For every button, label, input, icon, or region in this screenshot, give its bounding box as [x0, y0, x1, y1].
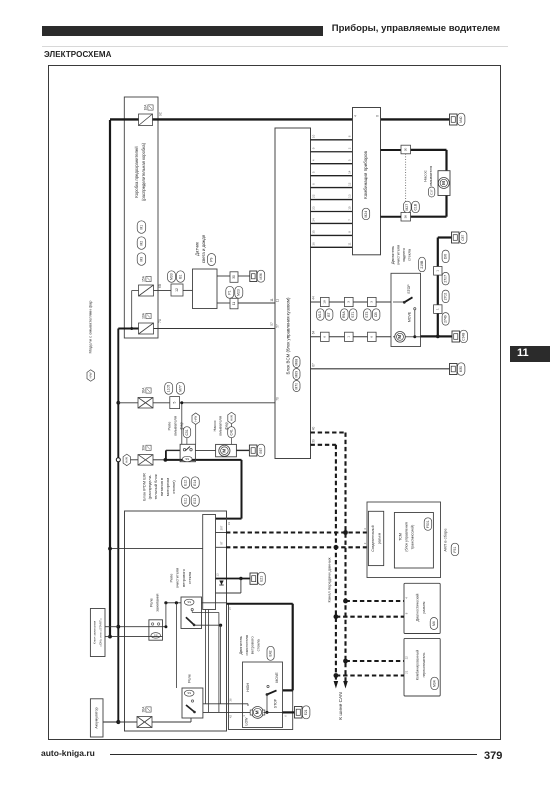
svg-text:2749: 2749	[443, 315, 447, 323]
svg-text:M: M	[255, 710, 260, 714]
svg-text:ST1: ST1	[351, 311, 355, 317]
svg-text:Блок BCM (блок управления кузо: Блок BCM (блок управления кузовом)	[286, 297, 291, 374]
svg-text:очистителя: очистителя	[395, 245, 400, 265]
svg-text:Р9: Р9	[209, 258, 213, 262]
svg-text:(распределительная коробка): (распределительная коробка)	[141, 142, 146, 201]
svg-text:M4: M4	[432, 621, 436, 626]
svg-text:36: 36	[311, 242, 315, 246]
svg-text:M70: M70	[294, 383, 298, 390]
svg-text:8: 8	[405, 612, 409, 614]
svg-text:(блок управления: (блок управления	[404, 522, 408, 551]
svg-text:ветрового: ветрового	[181, 569, 186, 587]
svg-text:23: 23	[311, 206, 315, 210]
svg-text:6B: 6B	[158, 284, 162, 288]
svg-text:стекла: стекла	[255, 638, 260, 651]
svg-text:9: 9	[311, 147, 315, 149]
svg-text:заднего: заднего	[401, 248, 406, 262]
svg-text:омывателя: омывателя	[173, 416, 178, 436]
svg-text:5: 5	[173, 402, 177, 404]
svg-text:10: 10	[347, 206, 351, 210]
svg-text:стекла: стекла	[406, 248, 411, 261]
svg-text:7: 7	[347, 219, 351, 221]
svg-text:36: 36	[404, 215, 408, 219]
svg-text:4: 4	[353, 115, 357, 117]
svg-text:АКП в сборе: АКП в сборе	[442, 528, 447, 552]
svg-text:разъем: разъем	[422, 601, 426, 614]
svg-text:Двигатель: Двигатель	[238, 636, 243, 654]
svg-text:E67: E67	[259, 448, 263, 454]
svg-text:M77: M77	[178, 385, 182, 392]
svg-text:C1B: C1B	[413, 203, 417, 210]
svg-text:M36: M36	[259, 273, 263, 279]
svg-text:36: 36	[228, 698, 232, 702]
svg-text:H/W: H/W	[193, 416, 197, 422]
svg-text:3: 3	[347, 301, 351, 303]
svg-text:Модели с омывателями фар: Модели с омывателями фар	[88, 300, 93, 354]
svg-text:Коробка предохранителей: Коробка предохранителей	[134, 146, 139, 198]
svg-text:TCM: TCM	[398, 533, 402, 541]
svg-text:ST3: ST3	[365, 311, 369, 317]
svg-text:ветрового: ветрового	[250, 636, 255, 654]
svg-text:очистителя: очистителя	[244, 635, 249, 655]
svg-text:1: 1	[436, 270, 440, 272]
svg-text:3: 3	[370, 301, 374, 303]
svg-text:1: 1	[347, 336, 351, 338]
svg-text:3: 3	[363, 542, 367, 544]
svg-text:зажигания: зажигания	[156, 593, 160, 611]
svg-text:C41: C41	[229, 429, 233, 435]
svg-text:MOVE: MOVE	[275, 672, 279, 683]
svg-text:2: 2	[347, 147, 351, 149]
svg-text:31: 31	[227, 522, 231, 526]
svg-text:отсеке): отсеке)	[171, 480, 176, 494]
svg-text:моторном: моторном	[165, 478, 170, 497]
svg-text:M69: M69	[294, 371, 298, 378]
svg-text:Насос: Насос	[212, 420, 217, 431]
svg-text:D/6: D/6	[443, 254, 447, 259]
svg-text:40: 40	[311, 427, 315, 431]
svg-text:15A: 15A	[142, 275, 146, 282]
svg-text:44: 44	[311, 296, 315, 300]
svg-text:2702: 2702	[443, 293, 447, 301]
svg-text:Диагностический: Диагностический	[416, 594, 420, 622]
svg-text:тельный блок: тельный блок	[153, 474, 158, 499]
svg-text:B7: B7	[327, 313, 331, 317]
svg-text:67: 67	[311, 363, 315, 367]
svg-text:11: 11	[232, 302, 236, 306]
svg-text:M: M	[441, 181, 446, 185]
svg-text:E42: E42	[268, 650, 272, 656]
svg-text:30: 30	[232, 275, 236, 279]
svg-text:переключатель: переключатель	[422, 652, 426, 677]
svg-text:Ключ зажигания: Ключ зажигания	[93, 621, 97, 644]
svg-text:(распредели-: (распредели-	[147, 474, 152, 499]
svg-text:11: 11	[275, 299, 279, 303]
svg-text:омывателя: омывателя	[218, 416, 223, 436]
svg-text:57: 57	[275, 324, 279, 328]
svg-text:70: 70	[275, 397, 279, 401]
svg-text:M33: M33	[169, 273, 173, 280]
svg-text:E21: E21	[259, 576, 263, 582]
svg-text:света и дождя: света и дождя	[201, 234, 206, 263]
svg-text:6: 6	[370, 336, 374, 338]
svg-text:9C: 9C	[158, 111, 162, 116]
svg-text:13: 13	[347, 194, 351, 198]
svg-text:9: 9	[347, 231, 351, 233]
svg-text:25: 25	[228, 607, 232, 611]
svg-text:M40: M40	[459, 116, 463, 122]
svg-text:SS: SS	[187, 600, 191, 604]
svg-text:E11: E11	[184, 498, 188, 504]
svg-text:Датчик: Датчик	[195, 242, 200, 256]
svg-text:10A: 10A	[142, 312, 146, 319]
svg-text:M27: M27	[405, 204, 409, 211]
svg-text:«ON» или «START»: «ON» или «START»	[98, 618, 102, 647]
svg-text:2707: 2707	[443, 275, 447, 283]
svg-text:34: 34	[311, 218, 315, 222]
svg-text:C34B: C34B	[462, 333, 466, 341]
svg-text:F51: F51	[453, 547, 457, 553]
svg-text:12: 12	[175, 288, 179, 292]
svg-text:Реле: Реле	[169, 574, 174, 583]
svg-text:6: 6	[311, 183, 315, 185]
svg-text:Р1: Р1	[228, 290, 232, 294]
svg-text:M2: M2	[139, 241, 143, 246]
svg-text:Реле: Реле	[187, 674, 191, 683]
svg-text:HIGH: HIGH	[246, 683, 250, 692]
svg-text:стекла: стекла	[187, 571, 192, 584]
svg-text:H/W: H/W	[229, 415, 233, 421]
svg-text:39T: 39T	[220, 525, 224, 530]
svg-text:H/W: H/W	[125, 457, 129, 463]
svg-text:омывателя: омывателя	[428, 166, 433, 186]
svg-text:4: 4	[405, 597, 409, 599]
svg-text:Реле: Реле	[150, 598, 154, 607]
svg-text:11: 11	[270, 298, 274, 302]
svg-text:30A: 30A	[142, 706, 146, 713]
svg-text:Реле: Реле	[167, 422, 172, 431]
svg-text:STOP: STOP	[407, 284, 411, 294]
svg-text:Комбинированный: Комбинированный	[416, 650, 420, 680]
svg-text:13: 13	[216, 573, 220, 577]
svg-text:M13: M13	[318, 311, 322, 318]
svg-text:фар: фар	[178, 422, 183, 430]
svg-text:SS: SS	[185, 457, 189, 461]
svg-text:10: 10	[311, 134, 315, 138]
svg-text:M34: M34	[432, 680, 436, 687]
svg-text:4: 4	[363, 528, 367, 530]
svg-text:30: 30	[404, 148, 408, 152]
svg-text:5: 5	[311, 171, 315, 173]
svg-text:трансмиссией): трансмиссией)	[410, 525, 414, 550]
svg-text:M68: M68	[294, 359, 298, 366]
svg-text:M1: M1	[139, 225, 143, 230]
svg-text:42: 42	[228, 715, 232, 719]
svg-text:8: 8	[347, 135, 351, 137]
svg-text:5: 5	[347, 159, 351, 161]
svg-text:F501: F501	[426, 520, 430, 528]
svg-text:22: 22	[311, 194, 315, 198]
svg-text:1: 1	[436, 308, 440, 310]
svg-text:6: 6	[323, 336, 327, 338]
svg-text:Насос: Насос	[422, 170, 427, 181]
svg-text:21: 21	[405, 670, 409, 674]
svg-text:M: M	[397, 335, 402, 339]
svg-text:219B: 219B	[420, 260, 424, 269]
svg-text:4: 4	[311, 159, 315, 161]
svg-text:Блок IPDM E/R: Блок IPDM E/R	[141, 473, 146, 501]
svg-text:30A: 30A	[142, 387, 146, 394]
svg-text:R9A: R9A	[342, 311, 346, 318]
svg-text:Комбинация приборов: Комбинация приборов	[363, 150, 368, 198]
svg-text:M: M	[222, 449, 227, 453]
svg-text:H/W: H/W	[88, 372, 92, 378]
svg-text:C51: C51	[185, 429, 189, 435]
svg-text:14: 14	[347, 170, 351, 174]
svg-text:22: 22	[405, 656, 409, 660]
svg-text:LOW: LOW	[245, 717, 249, 726]
svg-text:8: 8	[375, 115, 379, 117]
svg-text:L105: L105	[167, 385, 171, 393]
svg-text:очистителя: очистителя	[175, 568, 180, 588]
svg-text:C37: C37	[429, 189, 433, 195]
svg-text:C87: C87	[461, 235, 465, 241]
svg-text:30A: 30A	[142, 444, 146, 451]
svg-text:12: 12	[347, 182, 351, 186]
svg-text:E21: E21	[304, 709, 308, 715]
svg-text:E14: E14	[193, 480, 197, 486]
svg-text:39: 39	[311, 439, 315, 443]
svg-text:SS: SS	[187, 691, 191, 695]
svg-text:M30: M30	[459, 366, 463, 372]
svg-text:E13: E13	[193, 498, 197, 504]
svg-text:6: 6	[284, 715, 288, 717]
svg-text:питания в: питания в	[159, 478, 164, 496]
svg-text:Канал передачи данных: Канал передачи данных	[327, 558, 332, 603]
svg-text:Аккумулятор: Аккумулятор	[95, 707, 99, 728]
svg-text:MOVE: MOVE	[408, 311, 412, 322]
svg-text:разъем: разъем	[377, 532, 381, 544]
svg-text:10A: 10A	[144, 104, 148, 111]
svg-text:M23: M23	[237, 289, 241, 296]
svg-text:Двигатель: Двигатель	[390, 246, 395, 264]
svg-text:M24: M24	[364, 211, 368, 218]
svg-text:18: 18	[323, 300, 327, 304]
svg-text:CB: CB	[374, 312, 378, 317]
svg-text:M3: M3	[139, 257, 143, 262]
svg-text:64: 64	[311, 331, 315, 335]
svg-text:9T: 9T	[220, 541, 224, 545]
svg-text:Соединительный: Соединительный	[371, 525, 375, 551]
svg-text:К шине CAN: К шине CAN	[338, 692, 344, 720]
svg-text:11: 11	[347, 242, 351, 245]
svg-text:B1: B1	[178, 275, 182, 279]
svg-text:35: 35	[311, 230, 315, 234]
svg-text:E12: E12	[184, 480, 188, 486]
svg-text:57: 57	[270, 322, 274, 326]
svg-text:STOP: STOP	[273, 698, 277, 708]
